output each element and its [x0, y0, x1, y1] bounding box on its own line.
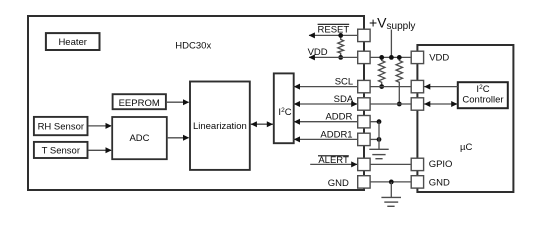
I2C Controller block (inside µC)	[458, 82, 508, 108]
svg-text:Controller: Controller	[462, 95, 503, 106]
wire RESET net	[309, 34, 358, 36]
wire ground rail ADDR/ADDR1	[378, 122, 380, 149]
wire ADDR net	[293, 121, 358, 123]
HDC30x chip outline U1	[28, 16, 364, 190]
svg-text:VDD: VDD	[429, 52, 449, 63]
svg-text:ADDR1: ADDR1	[320, 129, 352, 140]
ADC block	[112, 117, 167, 159]
pin ALERT (HDC30x)	[358, 158, 370, 170]
pin SCL (HDC30x)	[358, 80, 370, 92]
svg-text:RH Sensor: RH Sensor	[38, 122, 84, 133]
svg-text:GND: GND	[429, 178, 450, 189]
+Vsupply rail	[390, 30, 392, 58]
microcontroller box µC	[417, 45, 513, 192]
pin ADDR1 (HDC30x)	[358, 133, 370, 145]
pin SDA (HDC30x)	[358, 98, 370, 110]
wire RH Sensor to ADC	[88, 125, 111, 127]
junction dot R2 top	[379, 55, 384, 60]
junction dot Vsupply/VDD	[389, 55, 394, 60]
wire GND net	[370, 181, 411, 183]
svg-text:GND: GND	[328, 178, 349, 189]
pin SCL (µC)	[411, 80, 423, 92]
wire ADDR stub to ground rail	[370, 121, 379, 123]
svg-text:µC: µC	[460, 142, 472, 153]
wire VDD net	[309, 56, 412, 58]
wire T Sensor to ADC	[88, 149, 111, 151]
svg-text:GPIO: GPIO	[429, 159, 453, 170]
ground symbol (GND)	[381, 196, 401, 198]
wire ALERT net	[310, 163, 358, 165]
pin VDD (HDC30x)	[358, 51, 370, 63]
svg-text:ALERT: ALERT	[318, 155, 349, 166]
Linearization block	[190, 82, 250, 170]
pin GND (µC)	[411, 176, 423, 188]
svg-text:I2C: I2C	[476, 84, 489, 95]
svg-text:SCL: SCL	[335, 77, 353, 88]
svg-text:I2C: I2C	[278, 107, 291, 118]
pin VDD (µC)	[411, 51, 423, 63]
svg-text:SDA: SDA	[334, 94, 354, 105]
svg-text:Linearization: Linearization	[193, 121, 247, 132]
wire SCL to I2C Controller	[424, 86, 458, 88]
resistor R3 SDA pull-up	[396, 57, 402, 104]
T Sensor block	[34, 142, 88, 158]
resistor R2 SCL pull-up	[379, 57, 385, 86]
pin SDA (µC)	[411, 98, 423, 110]
ground symbol (ADDR)	[369, 148, 388, 150]
EEPROM block	[113, 94, 166, 109]
wire EEPROM to Linearization	[166, 101, 189, 103]
junction dot GND	[389, 180, 394, 185]
wire GND to ground	[390, 182, 392, 197]
I2C block (inside HDC30x)	[274, 73, 294, 143]
pin ADDR (HDC30x)	[358, 116, 370, 128]
wire ADC to Linearization	[167, 137, 189, 139]
heater block	[46, 33, 100, 50]
junction dot RESET/R1	[338, 33, 343, 38]
svg-text:T Sensor: T Sensor	[42, 145, 80, 156]
junction dot ADDR1	[377, 137, 382, 142]
svg-text:EEPROM: EEPROM	[119, 98, 160, 109]
RH Sensor block	[34, 117, 88, 135]
wire ADDR1 stub to ground rail	[370, 138, 379, 140]
svg-text:RESET: RESET	[318, 25, 350, 36]
wire SDA net	[293, 103, 411, 105]
svg-text:Heater: Heater	[58, 37, 87, 48]
junction dot R2 bottom on SCL	[379, 84, 384, 89]
wire Linearization to I2C (bidirectional)	[250, 123, 273, 125]
svg-text:ADC: ADC	[129, 133, 149, 144]
wire ADDR1 net	[293, 138, 358, 140]
wire ALERT to GPIO	[370, 163, 411, 165]
wire SDA to I2C Controller (bidirectional)	[424, 103, 458, 105]
pin GPIO (µC)	[411, 158, 423, 170]
wire SCL net	[293, 86, 411, 88]
junction dot VDD/R1	[338, 55, 343, 60]
svg-text:ADDR: ADDR	[325, 112, 352, 123]
svg-text:HDC30x: HDC30x	[175, 40, 211, 51]
pin RESET (HDC30x)	[358, 29, 370, 41]
junction dot R3 bottom on SDA	[397, 102, 402, 107]
svg-text:VDD: VDD	[308, 47, 328, 58]
pin GND (HDC30x)	[358, 176, 370, 188]
resistor R1 RESET pull-up to VDD	[338, 35, 344, 57]
junction dot ADDR	[377, 119, 382, 124]
junction dot R3 top	[397, 55, 402, 60]
